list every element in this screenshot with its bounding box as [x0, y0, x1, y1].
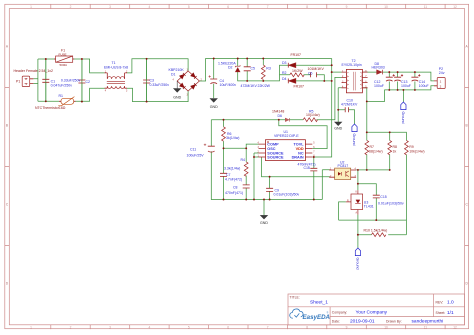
- svg-text:Header Female 2.54_1x2: Header Female 2.54_1x2: [14, 69, 54, 73]
- svg-text:10uF/400v: 10uF/400v: [220, 83, 237, 87]
- svg-text:9: 9: [346, 5, 348, 9]
- svg-text:Sheet_1: Sheet_1: [310, 300, 328, 306]
- svg-text:7: 7: [267, 325, 269, 329]
- svg-text:Your Company: Your Company: [356, 310, 388, 316]
- svg-text:1k: 1k: [393, 150, 397, 154]
- svg-text:R4: R4: [241, 158, 246, 162]
- svg-text:11: 11: [424, 325, 428, 329]
- svg-text:R3: R3: [266, 66, 271, 70]
- svg-text:C13: C13: [401, 80, 407, 84]
- svg-text:8: 8: [306, 325, 308, 329]
- svg-text:Ground: Ground: [355, 258, 359, 270]
- svg-text:2: 2: [70, 5, 72, 9]
- svg-text:C14: C14: [419, 80, 425, 84]
- svg-text:R10 1.5k(1/4w): R10 1.5k(1/4w): [364, 228, 388, 232]
- svg-text:Sheet:: Sheet:: [436, 311, 446, 315]
- svg-text:4: 4: [149, 325, 151, 329]
- svg-text:22K/2W: 22K/2W: [258, 84, 271, 88]
- svg-text:D6: D6: [278, 114, 283, 118]
- svg-text:Ground: Ground: [352, 134, 356, 146]
- svg-text:®: ®: [327, 312, 329, 315]
- svg-text:C7: C7: [226, 173, 231, 177]
- svg-text:KBP210K: KBP210K: [169, 68, 185, 72]
- svg-text:REV:: REV:: [436, 300, 444, 304]
- svg-text:12: 12: [453, 325, 457, 329]
- svg-text:10k(1/4w): 10k(1/4w): [409, 150, 424, 154]
- svg-text:PC817: PC817: [338, 164, 349, 168]
- svg-text:C12: C12: [374, 80, 380, 84]
- svg-text:TITLE:: TITLE:: [290, 295, 300, 299]
- svg-text:0.047uF/250v: 0.047uF/250v: [51, 84, 73, 88]
- svg-text:VDD: VDD: [296, 147, 304, 151]
- svg-text:NTCThermistor16Ω: NTCThermistor16Ω: [35, 106, 66, 110]
- svg-text:B: B: [6, 124, 8, 128]
- svg-text:11: 11: [424, 5, 428, 9]
- svg-text:1/1: 1/1: [447, 310, 454, 316]
- svg-text:10(1/4w): 10(1/4w): [306, 113, 320, 117]
- svg-text:4: 4: [149, 5, 151, 9]
- svg-text:sandeepmurthi: sandeepmurthi: [412, 319, 444, 325]
- svg-text:1: 1: [30, 5, 32, 9]
- svg-text:0.33uF/250v: 0.33uF/250v: [61, 78, 81, 82]
- svg-text:GND: GND: [210, 105, 218, 109]
- svg-text:R2: R2: [282, 71, 287, 75]
- svg-text:SOURCE: SOURCE: [267, 156, 284, 160]
- svg-text:100uF/25V: 100uF/25V: [187, 154, 205, 158]
- svg-text:3: 3: [109, 325, 111, 329]
- svg-text:COMP: COMP: [267, 143, 279, 147]
- svg-text:7: 7: [267, 5, 269, 9]
- svg-text:2: 2: [70, 325, 72, 329]
- svg-text:3k(1/4w): 3k(1/4w): [226, 136, 239, 140]
- svg-text:0.01uF(103)/50v: 0.01uF(103)/50v: [274, 192, 300, 196]
- svg-text:D4: D4: [282, 77, 287, 81]
- svg-text:500Ω: 500Ω: [60, 63, 68, 67]
- svg-text:100uF: 100uF: [374, 84, 384, 88]
- svg-text:TL431: TL431: [364, 205, 374, 209]
- svg-text:5: 5: [188, 325, 190, 329]
- svg-text:100uF: 100uF: [419, 84, 429, 88]
- svg-text:Company:: Company:: [332, 311, 348, 315]
- svg-text:3.3k(1/4w): 3.3k(1/4w): [224, 167, 240, 171]
- svg-text:P1: P1: [16, 80, 20, 84]
- svg-text:OSC: OSC: [267, 147, 275, 151]
- svg-text:472M/1KV: 472M/1KV: [341, 102, 358, 106]
- svg-text:B: B: [466, 124, 468, 128]
- svg-text:GND: GND: [260, 221, 268, 225]
- svg-text:TOVL: TOVL: [294, 143, 305, 147]
- svg-text:101M/1KV: 101M/1KV: [308, 67, 325, 71]
- svg-text:1: 1: [30, 325, 32, 329]
- svg-text:GND: GND: [173, 95, 181, 99]
- svg-text:HER303: HER303: [372, 65, 385, 69]
- svg-text:FUSE: FUSE: [59, 52, 67, 56]
- svg-text:470nF(471): 470nF(471): [225, 191, 243, 195]
- svg-text:6: 6: [227, 5, 229, 9]
- svg-text:3: 3: [109, 5, 111, 9]
- svg-text:R7: R7: [370, 145, 375, 149]
- svg-text:D2: D2: [228, 65, 233, 69]
- svg-text:EasyEDA: EasyEDA: [303, 314, 331, 321]
- svg-text:Date:: Date:: [332, 319, 340, 323]
- svg-text:DRAIN: DRAIN: [292, 156, 304, 160]
- svg-text:6: 6: [227, 325, 229, 329]
- svg-text:D1: D1: [171, 73, 176, 77]
- svg-text:C15: C15: [380, 195, 386, 199]
- svg-text:0.01uF(103)/50v: 0.01uF(103)/50v: [378, 201, 404, 205]
- svg-text:68(1/4w): 68(1/4w): [369, 150, 383, 154]
- svg-text:C11: C11: [190, 147, 196, 151]
- svg-text:10: 10: [384, 5, 388, 9]
- svg-text:Ground: Ground: [401, 112, 405, 124]
- svg-text:R9: R9: [409, 145, 414, 149]
- svg-text:1N4148: 1N4148: [272, 110, 284, 114]
- svg-text:EY025-10pin: EY025-10pin: [342, 63, 362, 67]
- svg-text:1.0: 1.0: [447, 300, 454, 306]
- svg-text:C5: C5: [251, 66, 256, 70]
- svg-text:5: 5: [188, 5, 190, 9]
- svg-text:C16: C16: [304, 166, 310, 170]
- svg-text:R8: R8: [393, 145, 398, 149]
- svg-text:24v: 24v: [439, 71, 445, 75]
- svg-text:2019-09-01: 2019-09-01: [350, 319, 375, 325]
- svg-text:Drawn By:: Drawn By:: [386, 319, 402, 323]
- svg-text:100uF: 100uF: [401, 84, 411, 88]
- svg-text:472M/1KV: 472M/1KV: [241, 84, 258, 88]
- svg-text:FR107: FR107: [294, 84, 305, 88]
- svg-text:12: 12: [453, 5, 457, 9]
- svg-text:C2: C2: [86, 80, 91, 84]
- svg-text:EMI-UU9.8-7x8: EMI-UU9.8-7x8: [104, 65, 128, 69]
- svg-text:8: 8: [306, 5, 308, 9]
- svg-text:10: 10: [384, 325, 388, 329]
- svg-text:C4: C4: [220, 79, 225, 83]
- svg-text:GND: GND: [334, 127, 342, 131]
- svg-text:R1: R1: [59, 94, 64, 98]
- svg-text:4.7nF(472): 4.7nF(472): [225, 178, 242, 182]
- svg-text:VIPER22 DIP-E: VIPER22 DIP-E: [274, 134, 299, 138]
- svg-text:1K/2W: 1K/2W: [292, 69, 303, 73]
- svg-text:C6: C6: [308, 71, 313, 75]
- svg-text:C8: C8: [233, 185, 238, 189]
- svg-text:FR107: FR107: [291, 53, 302, 57]
- svg-text:0.33uF/250v: 0.33uF/250v: [150, 83, 170, 87]
- svg-text:D3: D3: [282, 61, 287, 65]
- svg-text:9: 9: [346, 325, 348, 329]
